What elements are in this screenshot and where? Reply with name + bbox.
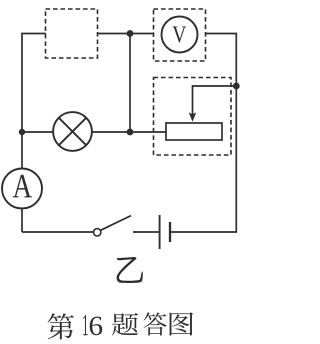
lamp cross stroke 2 [59,118,86,145]
label 乙 (diagram B) [117,257,143,283]
voltmeter label V [172,27,186,43]
dashed box around voltmeter [154,9,206,61]
dashed box (empty component placeholder, top-left) [46,9,98,58]
rheostat body [166,123,222,140]
caption 题 [112,313,138,335]
voltmeter circle [162,17,198,53]
caption 答 [144,312,167,335]
switch pivot [94,229,101,236]
wire left rail lower vertical [21,208,23,232]
caption digit 1 [83,315,87,335]
wire lamp left [22,131,53,133]
lamp circle [53,112,92,151]
wire right rail: V box, down right side, bottom to battery [171,34,236,233]
wire top middle (box1 right edge to V box left edge) [97,33,154,35]
junction node at lamp left [19,129,25,135]
switch blade [101,216,132,231]
battery short plate [169,222,171,242]
caption 图 [170,312,194,335]
wire voltmeter-to-lamp-node connector [129,34,131,133]
caption digit 6 [90,317,103,336]
wire bottom left to switch [22,231,93,233]
ammeter circle [2,169,42,209]
junction node top voltmeter tap [127,30,134,37]
junction node right rail slider tap [233,83,240,90]
dashed box around rheostat [154,78,232,156]
wire switch to battery [133,231,159,233]
wire rheostat slider arm [193,86,237,116]
caption 第 [48,313,74,339]
lamp cross stroke 1 [59,118,86,145]
rheostat slider arrowhead [189,112,197,122]
battery long plate [159,215,161,249]
wire left rail with top-left corner [22,34,46,169]
wire lamp right to rheostat [92,131,166,133]
junction node lamp-rheostat [127,129,134,136]
ammeter label A [13,175,32,198]
